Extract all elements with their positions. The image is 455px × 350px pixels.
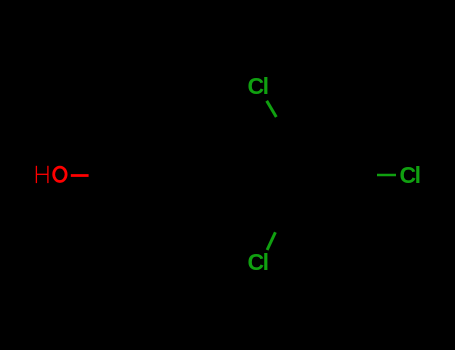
svg-text:Cl: Cl xyxy=(400,162,420,188)
atom label O (of phenol HO, bold ring) xyxy=(54,167,66,181)
atom label H (of phenol HO, thin strokes) xyxy=(36,166,48,183)
bond Cl-C4 (green half-bond) xyxy=(377,174,396,177)
svg-text:Cl: Cl xyxy=(248,73,268,99)
bond Cl-C2 (green half-bond) xyxy=(267,101,277,117)
svg-text:Cl: Cl xyxy=(248,249,268,275)
bond O-C4 (red half-bond) xyxy=(71,174,89,177)
bond Cl-C6 (green half-bond) xyxy=(267,232,275,250)
